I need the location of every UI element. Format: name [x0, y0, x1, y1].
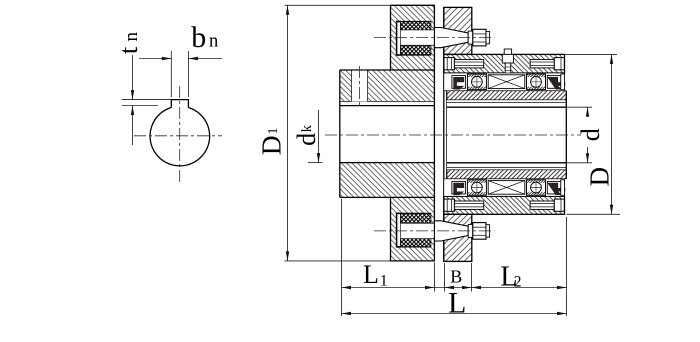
svg-text:d: d [576, 128, 605, 141]
dimension chain L1 B L2 [342, 287, 567, 289]
elastic pin assembly bottom [396, 213, 431, 247]
dimension b_n [139, 58, 171, 60]
cap bolt bottom right (right horizontal bolt) [530, 201, 554, 209]
bearing row bottom [444, 179, 565, 197]
cap bolt top right (right horizontal bolt) [530, 60, 554, 68]
svg-text:d: d [292, 133, 321, 146]
keyway slot [171, 100, 188, 108]
svg-text:1: 1 [266, 128, 281, 135]
right bore lines with keyway [447, 102, 566, 104]
grease nipple top [504, 49, 511, 54]
svg-text:n: n [209, 32, 218, 52]
circle horizontal centerline [134, 135, 222, 137]
right half left face [443, 7, 445, 261]
elastic pin assembly top [396, 22, 431, 56]
left bore lines with keyway [340, 100, 435, 102]
sleeve right edge [565, 91, 567, 179]
dimension b_n extension lines [170, 51, 172, 97]
circle vertical centerline [179, 86, 181, 182]
svg-text:b: b [191, 21, 206, 54]
right half flange blocks [444, 7, 472, 54]
shaft circle [150, 108, 210, 166]
left half outlines [391, 5, 435, 261]
dimension L [342, 313, 567, 315]
dimension D1 [287, 5, 289, 261]
bearing row top [444, 73, 565, 91]
inner sleeve left cap [445, 91, 447, 179]
svg-text:B: B [450, 266, 462, 286]
svg-text:D: D [256, 135, 287, 155]
dimension d extension lines [566, 106, 592, 108]
svg-text:k: k [299, 124, 315, 132]
cap bolt bottom (left horizontal bolt) [444, 199, 454, 211]
dimension D1 extension lines [285, 4, 391, 6]
svg-text:2: 2 [514, 274, 522, 291]
cap bolt top (left horizontal bolt) [444, 58, 454, 70]
svg-text:L: L [363, 260, 379, 289]
main centerline [325, 134, 581, 136]
svg-text:t: t [114, 46, 143, 54]
left half coupling hatched body [391, 5, 435, 21]
inner sleeve bands [447, 91, 566, 100]
dimension d_k [318, 110, 320, 163]
bearing housing outer bands [444, 54, 565, 73]
svg-text:n: n [121, 32, 142, 42]
bottom extension lines [341, 199, 343, 316]
dimension D [611, 54, 613, 214]
dimension d [587, 107, 589, 116]
bolt hole in brake wheel rim [352, 71, 368, 102]
svg-text:D: D [585, 167, 615, 187]
svg-text:1: 1 [380, 273, 388, 290]
dimension D extension lines [565, 53, 618, 55]
dimension t_n [132, 55, 134, 100]
svg-text:L: L [448, 286, 466, 319]
